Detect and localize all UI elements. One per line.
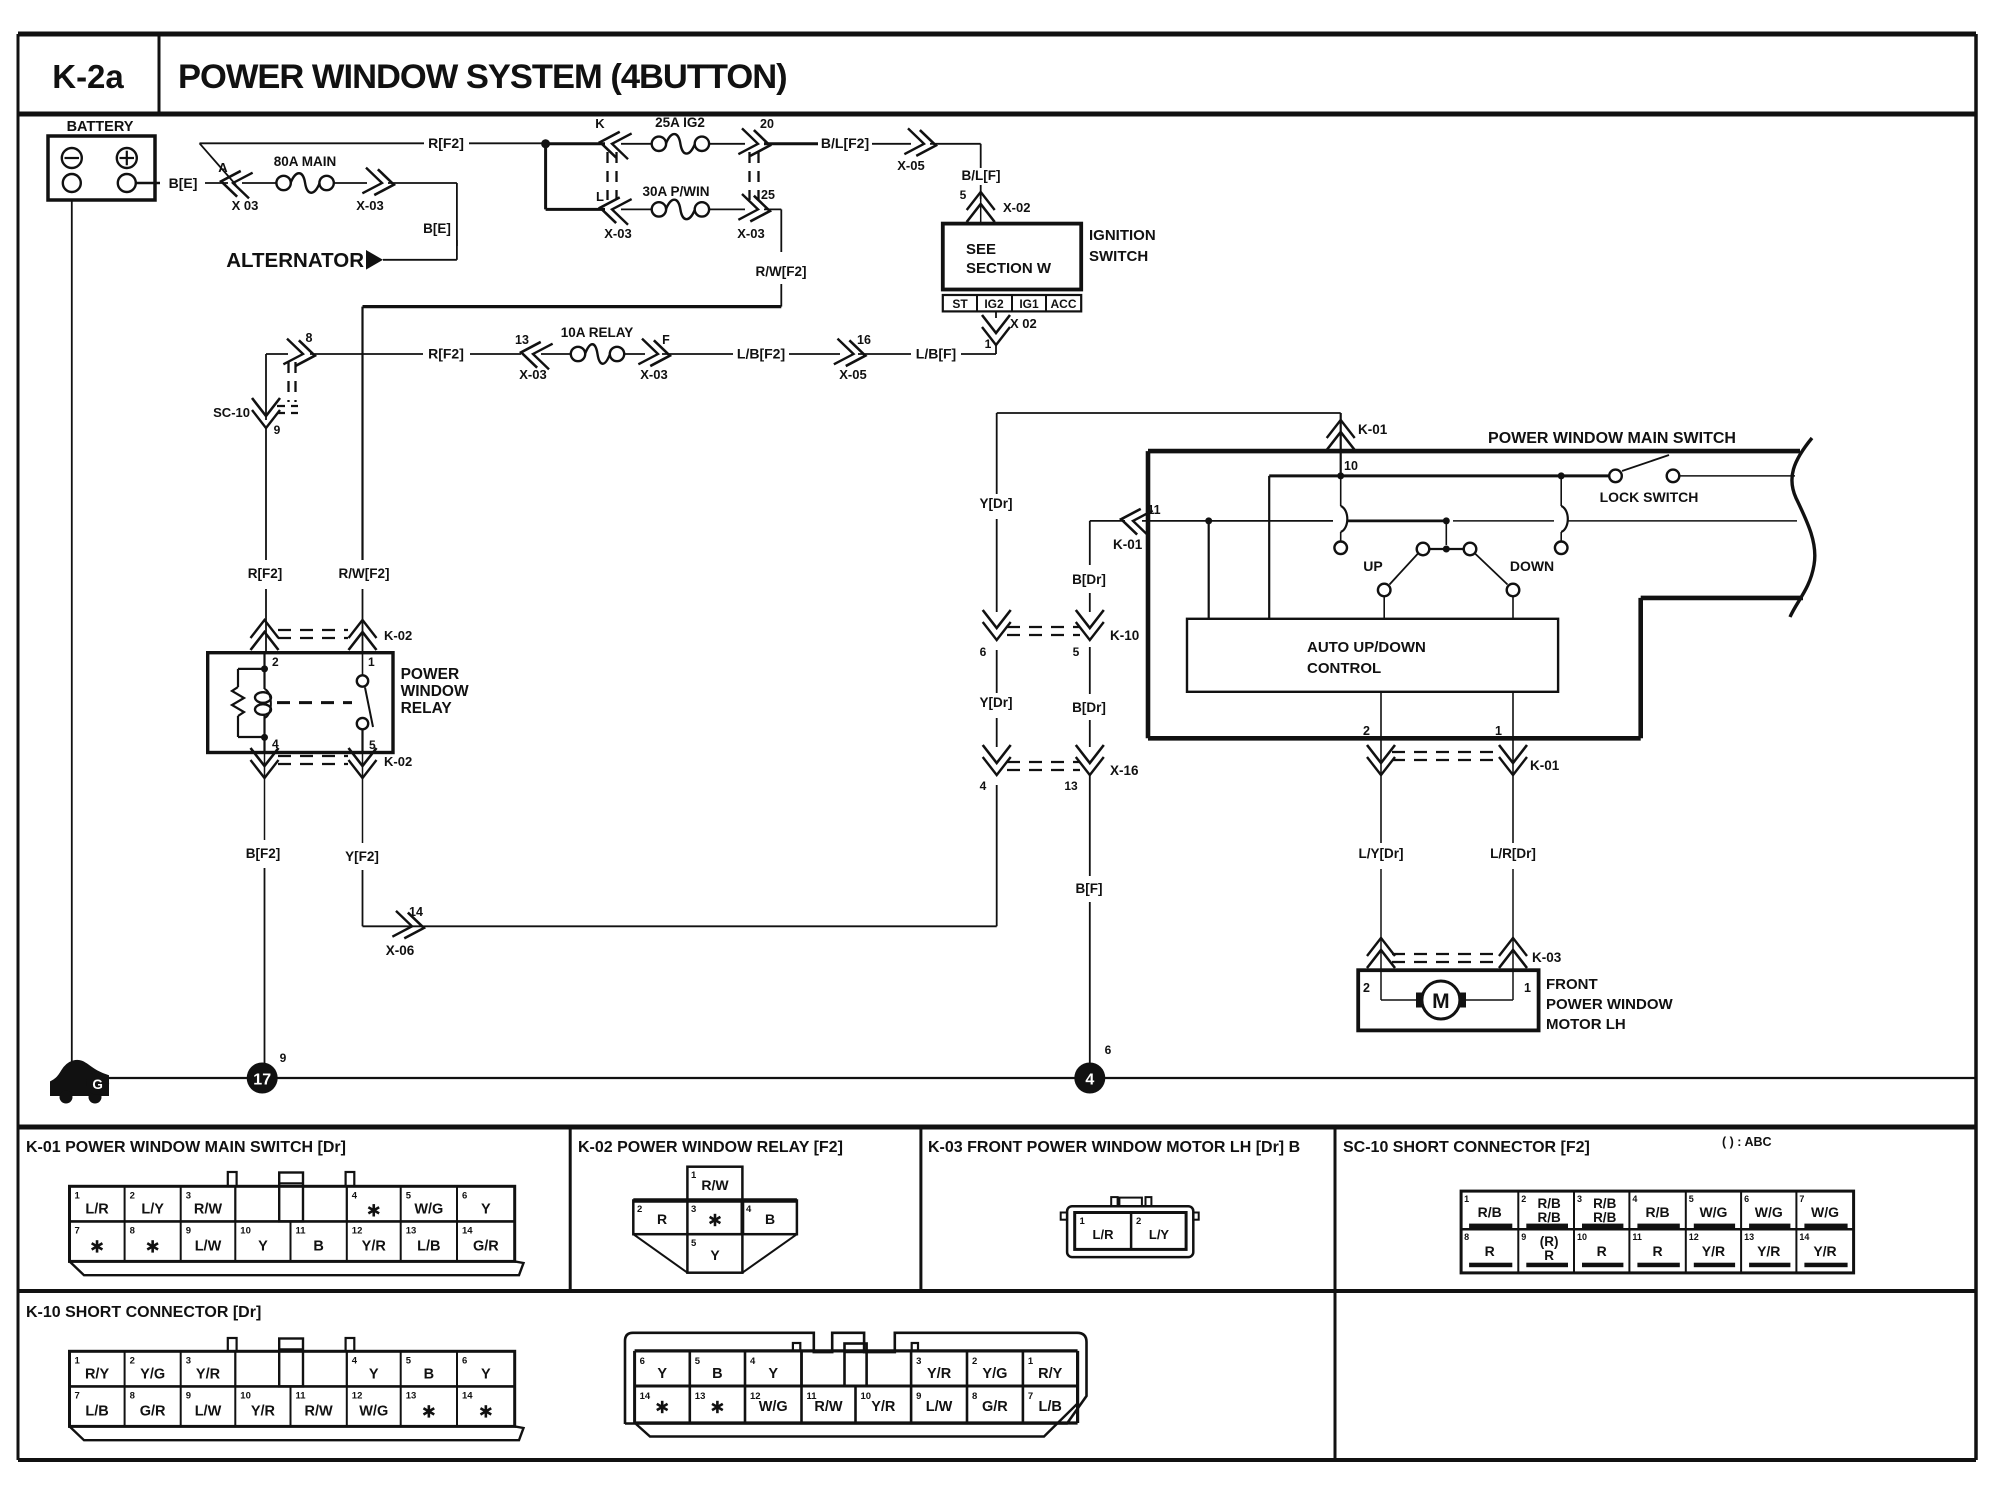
junction node R[F2] <box>541 139 550 148</box>
svg-text:Y[F2]: Y[F2] <box>345 849 379 864</box>
lock contact hook <box>1561 476 1568 542</box>
svg-text:L/B: L/B <box>1039 1399 1062 1415</box>
contact 1 hook <box>1341 476 1348 542</box>
svg-text:5: 5 <box>406 1190 412 1201</box>
svg-text:K-01 POWER WINDOW MAIN SWITCH: K-01 POWER WINDOW MAIN SWITCH [Dr] <box>26 1139 346 1156</box>
svg-text:X-06: X-06 <box>386 943 415 958</box>
svg-text:AUTO UP/DOWN: AUTO UP/DOWN <box>1307 639 1426 656</box>
svg-text:Y/R: Y/R <box>1813 1243 1836 1259</box>
connector K-02 chevron pin5 down <box>349 748 377 778</box>
svg-text:14: 14 <box>409 905 423 919</box>
wire Y[Dr] riser <box>996 785 998 926</box>
svg-text:UP: UP <box>1363 558 1382 574</box>
connector K-02 chevron pin2 up <box>251 620 279 650</box>
svg-text:13: 13 <box>695 1391 706 1402</box>
svg-text:R/B: R/B <box>1646 1204 1670 1220</box>
svg-text:3: 3 <box>916 1356 921 1367</box>
wire to corner B/L[F] <box>930 144 981 168</box>
svg-text:W/G: W/G <box>414 1201 443 1217</box>
connector K-01 chevron 11 <box>1113 503 1161 552</box>
svg-text:L/R[Dr]: L/R[Dr] <box>1490 846 1536 861</box>
svg-text:Y/R: Y/R <box>871 1399 896 1415</box>
wire corner to chevron8 <box>266 353 288 355</box>
svg-text:G/R: G/R <box>140 1403 166 1419</box>
wire Y[Dr] upper <box>996 519 998 612</box>
wire R/W[F2] vertical <box>361 307 363 560</box>
svg-text:4: 4 <box>1632 1194 1637 1204</box>
wire UP to control <box>1383 596 1385 619</box>
wire R/W[F2] horizontal (bold) <box>363 305 782 308</box>
svg-text:MOTOR LH: MOTOR LH <box>1546 1016 1626 1033</box>
svg-text:R[F2]: R[F2] <box>428 346 464 362</box>
connector X-03 chevron out <box>356 168 395 213</box>
title text POWER WINDOW SYSTEM (4BUTTON) <box>178 58 787 96</box>
svg-text:6: 6 <box>1105 1043 1112 1057</box>
svg-text:F: F <box>662 333 670 347</box>
relay pin 2 node <box>261 655 279 672</box>
svg-text:10A RELAY: 10A RELAY <box>561 325 634 340</box>
label L/Y[Dr] <box>1359 846 1404 861</box>
connector 14 chevron X-06 <box>386 905 426 958</box>
label K-02 bottom <box>384 754 412 769</box>
rocker circle left <box>1417 543 1430 556</box>
connector pair dashes K-10 <box>1007 627 1080 635</box>
svg-text:Y: Y <box>710 1247 720 1263</box>
svg-text:R/B: R/B <box>1538 1196 1562 1211</box>
svg-text:W/G: W/G <box>1699 1204 1727 1220</box>
tables divider K-03/SC-10 <box>1334 1127 1337 1460</box>
svg-text:B: B <box>313 1238 323 1254</box>
svg-text:R/B: R/B <box>1593 1210 1617 1225</box>
ground car symbol <box>51 1061 108 1104</box>
connector pair dashes K-03 <box>1392 954 1502 962</box>
svg-text:X-03: X-03 <box>519 367 546 382</box>
wire ignition to L/B[F] <box>961 345 996 354</box>
svg-text:FRONT: FRONT <box>1546 976 1598 993</box>
svg-text:3: 3 <box>186 1355 191 1366</box>
connector X-16 chevron 4 <box>980 745 1011 793</box>
wire junction down (bold) <box>544 144 547 210</box>
connector X 02 chevron down <box>982 315 1037 345</box>
section title K-01 <box>26 1139 346 1156</box>
svg-text:3: 3 <box>691 1204 696 1215</box>
label K-03 <box>1532 950 1562 965</box>
lock contact circle <box>1555 542 1568 555</box>
svg-text:K-2a: K-2a <box>52 58 124 95</box>
label B[E] <box>169 175 198 191</box>
svg-text:L/B[F2]: L/B[F2] <box>737 346 785 362</box>
motor pin 1 wire <box>1466 970 1531 1000</box>
relay switch arm <box>365 688 373 728</box>
svg-text:1: 1 <box>1464 1194 1469 1204</box>
svg-text:X-02: X-02 <box>1003 200 1030 215</box>
svg-text:CONTROL: CONTROL <box>1307 660 1381 677</box>
legend ( ) : ABC <box>1722 1135 1772 1149</box>
svg-text:3: 3 <box>1577 1194 1582 1204</box>
svg-text:4: 4 <box>980 779 987 793</box>
svg-text:L/B: L/B <box>417 1238 440 1254</box>
wire to corner B[E] <box>388 183 457 246</box>
svg-text:Y/R: Y/R <box>1757 1243 1780 1259</box>
wire fuse to X-03 chevron <box>334 182 367 184</box>
svg-text:30A P/WIN: 30A P/WIN <box>642 184 709 199</box>
svg-text:R/W: R/W <box>701 1177 729 1193</box>
tables mid divider <box>18 1289 1976 1293</box>
svg-text:Y/R: Y/R <box>196 1366 221 1382</box>
connector K-01 pin face <box>70 1172 524 1275</box>
wire R/W[F2] to relay <box>362 589 364 653</box>
motor M1 circle <box>1422 981 1460 1019</box>
wire Y[Dr] mid2 <box>996 650 998 693</box>
svg-text:DOWN: DOWN <box>1510 558 1554 574</box>
svg-text:R[F2]: R[F2] <box>428 135 464 151</box>
svg-text:X 02: X 02 <box>1010 316 1037 331</box>
label K-10 <box>1110 628 1139 643</box>
svg-text:9: 9 <box>1521 1232 1526 1242</box>
connector K-10 pin face <box>70 1338 524 1440</box>
wire B[E] down to alternator node <box>383 240 457 260</box>
wire into ignition switch <box>980 193 982 224</box>
wire Y[F2] down <box>362 870 364 926</box>
svg-text:K-10: K-10 <box>1110 628 1139 643</box>
connector K-02 chevron pin4 down <box>251 748 279 778</box>
connector K-10 chevron 5 <box>1073 610 1104 659</box>
label Y[F2] <box>345 849 379 864</box>
svg-text:ST: ST <box>952 297 968 311</box>
svg-text:R/W[F2]: R/W[F2] <box>756 264 807 279</box>
wire Y[Dr] top corner <box>997 413 1341 494</box>
svg-text:2: 2 <box>637 1204 642 1215</box>
SC-10 joining dashes <box>277 362 298 413</box>
DOWN contact circle <box>1507 584 1520 597</box>
wire fuse to F <box>624 353 645 355</box>
svg-text:L/B[F]: L/B[F] <box>916 346 956 362</box>
svg-text:R/W[F2]: R/W[F2] <box>339 566 390 581</box>
label Y[Dr] upper <box>980 496 1013 511</box>
label AUTO UP/DOWN CONTROL <box>1307 639 1426 677</box>
wire to fuse P/WIN (bold) <box>546 208 605 211</box>
contact 1 circle <box>1334 542 1347 555</box>
connector K chevron <box>595 116 631 159</box>
svg-text:10: 10 <box>1577 1232 1587 1242</box>
wire B[F2] <box>264 753 266 841</box>
battery terminal + symbol <box>117 148 137 168</box>
lock switch circle 2 <box>1667 470 1680 483</box>
svg-text:4: 4 <box>750 1356 756 1367</box>
svg-text:Y: Y <box>481 1201 491 1217</box>
svg-text:11: 11 <box>296 1225 307 1236</box>
svg-text:5: 5 <box>695 1356 701 1367</box>
wire to X-05 chevron <box>872 143 911 145</box>
label K-02 top <box>384 628 412 643</box>
label IG1 <box>1019 297 1039 311</box>
wire R[F2] down <box>265 428 267 560</box>
junction dot pin11 <box>1205 517 1212 524</box>
relay box K-02 POWER WINDOW RELAY <box>208 653 393 753</box>
battery terminal - symbol <box>62 148 82 168</box>
wire R[F2] row <box>470 353 521 355</box>
svg-text:LOCK SWITCH: LOCK SWITCH <box>1600 489 1699 505</box>
diagonal wire to R[F2] feed <box>200 143 237 185</box>
connector K-03 chevron 2 up <box>1367 938 1395 968</box>
svg-text:5: 5 <box>1689 1194 1694 1204</box>
svg-text:Y[Dr]: Y[Dr] <box>980 695 1013 710</box>
svg-text:Y/R: Y/R <box>1702 1243 1725 1259</box>
connector K-02 pin face <box>633 1167 797 1273</box>
label X-16 <box>1110 763 1139 778</box>
svg-text:B: B <box>712 1366 722 1382</box>
svg-text:SEE: SEE <box>966 241 996 258</box>
svg-text:7: 7 <box>75 1390 80 1401</box>
svg-text:1: 1 <box>368 655 375 669</box>
svg-text:R/B: R/B <box>1593 1196 1617 1211</box>
svg-text:1: 1 <box>75 1355 81 1366</box>
motor box <box>1358 970 1538 1030</box>
svg-text:1: 1 <box>1524 981 1531 995</box>
wire B[F2] to ground node <box>264 868 266 1064</box>
ground node 17 <box>247 1051 287 1094</box>
svg-text:R/W: R/W <box>194 1201 223 1217</box>
connector 8 chevron <box>283 331 316 369</box>
section title K-03 <box>928 1139 1300 1156</box>
rocker center <box>1443 521 1450 553</box>
label X-03 under 25 <box>737 226 764 241</box>
svg-text:X-03: X-03 <box>737 226 764 241</box>
wire lock to break <box>1680 475 1795 477</box>
svg-text:L/R: L/R <box>85 1201 109 1217</box>
battery B1 <box>48 136 155 200</box>
wire B[Dr] upper <box>1089 521 1091 565</box>
svg-text:R: R <box>657 1211 667 1227</box>
svg-text:R: R <box>1597 1243 1607 1259</box>
svg-text:12: 12 <box>352 1390 363 1401</box>
svg-text:K-02: K-02 <box>384 754 412 769</box>
svg-text:R: R <box>1485 1243 1495 1259</box>
label B[F2] <box>246 846 281 861</box>
svg-text:4: 4 <box>1085 1072 1094 1089</box>
wire Y[F2] <box>362 753 364 844</box>
svg-text:K: K <box>595 116 605 131</box>
svg-text:Y: Y <box>768 1366 778 1382</box>
svg-text:6: 6 <box>462 1190 467 1201</box>
svg-text:7: 7 <box>1028 1391 1033 1402</box>
svg-text:2: 2 <box>130 1190 135 1201</box>
tables top divider <box>18 1125 1976 1130</box>
svg-text:1: 1 <box>1028 1356 1034 1367</box>
svg-text:6: 6 <box>1744 1194 1749 1204</box>
tables divider K-01/K-02 <box>569 1127 572 1291</box>
svg-text:6: 6 <box>462 1355 467 1366</box>
main switch break wave <box>1790 438 1815 617</box>
connector 16 chevron <box>834 333 871 382</box>
relay pin 4 node <box>261 734 279 751</box>
wire 30A fuse to chevron 25 <box>709 208 745 210</box>
svg-text:10: 10 <box>240 1390 251 1401</box>
title text K-2a <box>52 58 124 95</box>
svg-text:Y[Dr]: Y[Dr] <box>980 496 1013 511</box>
motor pin 2 wire <box>1363 970 1419 1000</box>
svg-text:2: 2 <box>130 1355 135 1366</box>
relay actuation dashed line <box>277 701 352 704</box>
connector K-10 rear view <box>625 1333 1087 1437</box>
fuse 25A IG2 <box>652 115 709 154</box>
svg-text:14: 14 <box>462 1390 473 1401</box>
svg-text:25: 25 <box>761 188 775 202</box>
title bar <box>18 34 1976 114</box>
label L/B[F] <box>916 346 956 362</box>
svg-text:7: 7 <box>75 1225 80 1236</box>
svg-text:L/W: L/W <box>195 1238 222 1254</box>
wire R/W[F2] down to bold run <box>780 284 782 307</box>
wire to chevron F <box>662 353 733 355</box>
svg-text:POWER WINDOW MAIN SWITCH: POWER WINDOW MAIN SWITCH <box>1488 430 1736 447</box>
junction dot rocker feed <box>1443 517 1450 524</box>
svg-text:Y/R: Y/R <box>362 1238 387 1254</box>
svg-text:SECTION W: SECTION W <box>966 260 1052 277</box>
wire B[Dr] mid2 <box>1089 647 1091 694</box>
wire ignition down <box>995 311 997 318</box>
svg-text:2: 2 <box>972 1356 977 1367</box>
svg-text:13: 13 <box>406 1390 417 1401</box>
svg-text:L/R: L/R <box>1093 1227 1115 1242</box>
svg-text:12: 12 <box>352 1225 363 1236</box>
svg-text:L/Y[Dr]: L/Y[Dr] <box>1359 846 1404 861</box>
connector L chevron <box>596 189 632 225</box>
wire pin11 row <box>1209 520 1333 522</box>
svg-text:R/W: R/W <box>305 1403 334 1419</box>
wire chevron25 to corner <box>764 209 781 252</box>
connector pair dashes X-16 <box>1007 762 1080 770</box>
svg-text:B: B <box>424 1366 434 1382</box>
wire chevron11 into box <box>1142 520 1209 522</box>
battery post - <box>63 174 81 192</box>
junction dot lock feed <box>1558 472 1565 479</box>
svg-text:13: 13 <box>1064 779 1078 793</box>
svg-text:Y: Y <box>369 1366 379 1382</box>
svg-text:Y: Y <box>481 1366 491 1382</box>
svg-text:(R): (R) <box>1540 1234 1559 1249</box>
connector 20 chevron <box>738 117 774 158</box>
wire to 25A fuse <box>621 143 651 145</box>
svg-text:14: 14 <box>640 1391 651 1402</box>
connector K-03 pin face <box>1061 1197 1199 1257</box>
svg-text:B[Dr]: B[Dr] <box>1072 700 1106 715</box>
svg-text:8: 8 <box>972 1391 977 1402</box>
section title K-02 <box>578 1139 843 1156</box>
ignition switch text <box>966 241 1052 277</box>
svg-text:Y/R: Y/R <box>251 1403 276 1419</box>
connector X-05 chevron <box>897 128 937 173</box>
svg-text:Y/R: Y/R <box>927 1366 952 1382</box>
svg-text:K-01: K-01 <box>1113 537 1143 552</box>
wire pin11 row to break <box>1568 520 1797 522</box>
connector pair dashes K-02 top <box>278 630 348 638</box>
wire SC-10 drop <box>265 354 267 420</box>
label R/W[F2] vertical <box>339 566 390 581</box>
svg-text:10: 10 <box>240 1225 251 1236</box>
svg-text:2: 2 <box>272 655 279 669</box>
svg-text:8: 8 <box>1464 1232 1469 1242</box>
fuse 80A MAIN <box>274 154 337 193</box>
svg-text:IGNITION: IGNITION <box>1089 227 1156 244</box>
label B/L[F2] <box>821 135 869 151</box>
svg-text:K-01: K-01 <box>1530 758 1560 773</box>
label DOWN <box>1510 558 1554 574</box>
svg-text:6: 6 <box>640 1356 645 1367</box>
wire to 30A fuse <box>621 208 651 210</box>
svg-text:12: 12 <box>1689 1232 1699 1242</box>
label R/W[F2] <box>756 264 807 279</box>
svg-text:SC-10: SC-10 <box>213 405 250 420</box>
svg-text:RELAY: RELAY <box>401 700 453 717</box>
svg-text:X-03: X-03 <box>640 367 667 382</box>
svg-text:20: 20 <box>760 117 774 131</box>
connector X-02 chevron up <box>967 192 1031 222</box>
wire to chevron 8 <box>310 353 423 355</box>
svg-text:B/L[F2]: B/L[F2] <box>821 135 869 151</box>
svg-text:6: 6 <box>980 645 987 659</box>
battery label <box>67 119 134 135</box>
label X-03 under K <box>604 226 631 241</box>
wire pin10 row (bold) <box>1269 474 1609 477</box>
wire pin11 feed corner <box>1090 520 1125 522</box>
ignition switch positions row <box>943 295 1081 311</box>
label IG2 <box>984 297 1004 311</box>
fuse 30A P/WIN <box>642 184 709 219</box>
wire R[F2] to junction <box>469 142 543 144</box>
svg-text:11: 11 <box>296 1390 307 1401</box>
wire L/B[F] row a <box>858 353 911 355</box>
section title SC-10 <box>1343 1139 1590 1156</box>
connector K-01 chevron pin1 down <box>1499 745 1527 775</box>
label IGNITION SWITCH <box>1089 227 1156 265</box>
svg-text:8: 8 <box>130 1390 135 1401</box>
svg-text:L/B: L/B <box>85 1403 108 1419</box>
svg-text:( ) : ABC: ( ) : ABC <box>1722 1135 1772 1149</box>
connector 25 chevron <box>738 188 775 224</box>
svg-text:A: A <box>218 160 228 175</box>
svg-text:13: 13 <box>1744 1232 1754 1242</box>
svg-text:16: 16 <box>857 333 871 347</box>
wire pin11 drop to control <box>1208 521 1210 619</box>
label B[F] <box>1076 881 1103 896</box>
svg-text:L: L <box>596 189 604 204</box>
UP contact arm <box>1390 554 1419 585</box>
wire B[Dr] to X-16 <box>1089 720 1091 747</box>
wire B[F] to ground node <box>1089 902 1091 1064</box>
wire Y[F2] horizontal run <box>363 925 997 927</box>
lock switch circle 1 <box>1609 470 1622 483</box>
svg-text:B[F]: B[F] <box>1076 881 1103 896</box>
svg-text:ACC: ACC <box>1051 297 1077 311</box>
fuse 10A RELAY <box>561 325 634 364</box>
svg-text:ALTERNATOR: ALTERNATOR <box>226 249 364 272</box>
svg-text:Y: Y <box>657 1366 667 1382</box>
wire to fuse 80A <box>242 182 276 184</box>
wire L/R[Dr] down <box>1512 869 1514 970</box>
label K-01 bottom <box>1530 758 1560 773</box>
svg-text:WINDOW: WINDOW <box>401 683 469 700</box>
svg-text:5: 5 <box>1073 645 1080 659</box>
svg-text:K-03 FRONT POWER WINDOW MOTOR: K-03 FRONT POWER WINDOW MOTOR LH [Dr] B <box>928 1139 1300 1156</box>
svg-text:SWITCH: SWITCH <box>1089 248 1148 265</box>
label R[F2] <box>428 135 464 151</box>
svg-text:X-16: X-16 <box>1110 763 1139 778</box>
svg-text:B/L[F]: B/L[F] <box>962 168 1001 183</box>
label L/B[F2] <box>737 346 785 362</box>
ground G symbol <box>86 1072 109 1095</box>
svg-text:Y/G: Y/G <box>982 1366 1007 1382</box>
